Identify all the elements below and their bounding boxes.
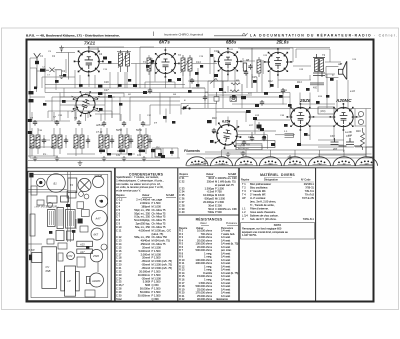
svg-text:B1: B1 [54,182,58,186]
filament dome 5 [284,157,306,166]
IF transformer T2 [181,55,193,76]
filament dome 4 [260,157,282,166]
svg-text:T 4: T 4 [242,193,246,197]
svg-text:6B8 s: 6B8 s [226,39,237,44]
svg-text:1.047 60751.: 1.047 60751. [242,233,257,237]
svg-text:C18: C18 [214,50,219,53]
extra mesh and annotations [152,48,330,158]
svg-text:M 1.000: M 1.000 [152,252,162,256]
svg-text:C25: C25 [252,76,257,79]
svg-text:P 1.500: P 1.500 [152,201,161,205]
svg-text:L 3,4: L 3,4 [242,214,248,218]
vertical divider 4 [315,168,317,302]
svg-text:C 39: C 39 [179,207,185,211]
svg-text:C 16: C 16 [116,249,122,253]
svg-text:P 1.500: P 1.500 [152,256,161,260]
svg-text:Mi 1.500: Mi 1.500 [215,197,226,201]
svg-text:762: 762 [317,163,322,166]
coil bank dark t marks [99,150,145,156]
condensateur column B rows [179,176,237,214]
svg-text:A20MC: A20MC [91,279,101,283]
svg-text:P 1.500: P 1.500 [215,186,224,190]
extra spokes on socket [72,96,100,112]
svg-text:C 11: C 11 [116,228,122,232]
svg-text:4 225V: 4 225V [193,163,201,166]
dome voltage texts [193,163,369,166]
input filter resistor [40,69,46,72]
svg-text:Ch.-Mica 75: Ch.-Mica 75 [152,222,167,226]
svg-text:FUSIB: FUSIB [95,174,103,178]
svg-text:10.000mm: 10.000mm [138,273,150,277]
svg-text:50fa, mi., 250: 50fa, mi., 250 [134,235,150,239]
svg-text:7/37-E-25t: 7/37-E-25t [302,196,314,200]
accumulator label box [236,144,262,150]
svg-text:C 18: C 18 [116,256,122,260]
svg-text:C 25: C 25 [116,280,122,284]
ground row under coils [33,156,38,161]
ground symbols row [203,160,208,165]
osc coil L1 [30,135,34,148]
svg-text:M 1.000: M 1.000 [152,204,162,208]
svg-text:R 22: R 22 [179,297,185,301]
svg-text:C 34: C 34 [179,190,185,194]
antenna terminal mark [29,173,33,178]
svg-text:C 4: C 4 [116,204,121,208]
chassis small labels [29,174,103,283]
svg-text:10.000pa: 10.000pa [203,193,214,197]
svg-text:20.000pa: 20.000pa [203,200,214,204]
svg-text:(tubul. 75): (tubul. 75) [152,232,164,236]
svg-text:40.000 ohms: 40.000 ohms [197,297,213,301]
svg-text:0.5a, mi., 250: 0.5a, mi., 250 [134,215,150,219]
PSU terminal strip details [236,122,294,148]
filament dome 7 [333,157,355,166]
AA7 circle [92,210,108,226]
IF transformer T1 [117,50,131,72]
NOTA box [241,223,315,239]
bleeder resistor [361,128,365,150]
osc coil L5 [119,135,123,148]
svg-text:C 6: C 6 [116,211,121,215]
svg-text:403: 403 [333,148,338,151]
svg-text:C 20: C 20 [116,263,122,267]
tiny reference labels [52,50,361,151]
svg-text:450mmf: 450mmf [141,242,151,246]
svg-text:P 1.500: P 1.500 [152,273,161,277]
filament bus [187,153,372,155]
resistor R9 zigzag [230,90,239,92]
tube V5 6J5 [210,118,244,152]
svg-text:2pm250 fqq.: 2pm250 fqq. [136,222,151,226]
svg-text:P 1.500: P 1.500 [152,290,161,294]
svg-text:C 3: C 3 [116,201,121,205]
svg-text:AA7: AA7 [95,217,101,221]
svg-text:-0.5mf: -0.5mf [207,190,215,194]
svg-text:C 200/25v en. C29: C 200/25v en. C29 [215,176,237,180]
6K7 circle [91,228,103,240]
svg-text:P 1.500: P 1.500 [152,287,161,291]
svg-text:-05mmf: -05mmf [141,259,150,263]
double rule above RESISTANCES [179,213,239,216]
svg-text:Accumurat: Accumurat [238,147,249,150]
svg-text:C27: C27 [104,89,109,92]
svg-text:50/50: 50/50 [116,130,122,132]
svg-text:T 2: T 2 [242,186,246,190]
svg-text:4 253: 4 253 [218,163,225,166]
junction box between rectifier tubes [318,107,334,114]
resistor R8 zigzag [231,83,240,85]
svg-text:C 5: C 5 [116,208,121,212]
svg-text:C 7: C 7 [116,215,121,219]
fuse circle [93,176,104,187]
svg-text:P 1.500: P 1.500 [152,280,161,284]
CONDENSATEURS rows [116,198,172,301]
svg-text:Ch.-Mica 75: Ch.-Mica 75 [152,225,167,229]
svg-text:P 750: P 750 [215,190,222,194]
svg-text:P 500: P 500 [215,210,222,214]
svg-text:Ch.-Mica 75: Ch.-Mica 75 [152,218,167,222]
svg-text:C 12: C 12 [116,235,122,239]
svg-text:739-7x1: 739-7x1 [305,189,315,193]
svg-text:Filaments: Filaments [184,149,200,153]
svg-text:C.: C. [332,74,335,77]
svg-text:C 15: C 15 [116,245,122,249]
T3 circle [96,195,108,207]
svg-text:C 24: C 24 [116,276,122,280]
svg-text:C 23: C 23 [116,273,122,277]
svg-text:20mmf: 20mmf [142,256,150,260]
detector coupling stack [243,57,263,77]
svg-text:M 654 (m/h. 75): M 654 (m/h. 75) [152,239,170,243]
tube V3 6B8 [214,48,242,76]
svg-text:C 38: C 38 [179,203,185,207]
A17 rect [77,249,93,254]
svg-text:TS: TS [322,54,325,57]
svg-text:C 26,7: C 26,7 [116,283,124,287]
CV gang block [42,247,57,289]
antenna [34,53,41,61]
svg-text:R20: R20 [356,130,361,133]
tube V7 ballast [330,103,358,131]
svg-text:et de service pour V.: et de service pour V. [116,189,141,193]
svg-text:2 × 0.460mf: 2 × 0.460mf [136,198,150,202]
svg-text:50a, mi., 250: 50a, mi., 250 [135,225,151,229]
CONDENSATEURS intro paragraph [116,175,164,192]
svg-text:Gous seuls chaussins.: Gous seuls chaussins. [250,210,276,214]
chassis mid parts [67,191,89,223]
svg-text:R12: R12 [268,80,273,83]
svg-text:Imprimerie CHIRIO, Argenteuil: Imprimerie CHIRIO, Argenteuil [164,32,203,36]
svg-text:6K7 s: 6K7 s [159,40,170,45]
svg-text:5mm100pfqq.: 5mm100pfqq. [134,218,150,222]
filament feed wires [222,145,345,157]
svg-text:E 200: E 200 [215,203,222,207]
svg-text:50mf: 50mf [208,207,214,211]
svg-text:var.,cage: var.,cage [152,198,163,202]
svg-text:5.000mmf: 5.000mmf [138,249,150,253]
svg-text:-20mmf: -20mmf [141,276,150,280]
HP circle with cross [78,178,91,191]
svg-text:30mf: 30mf [208,176,214,180]
svg-text:C 19: C 19 [116,259,122,263]
svg-text:M 1.500 (m/h. 75): M 1.500 (m/h. 75) [152,259,173,263]
component marks scattered [29,54,334,156]
wave switch cross [46,68,62,74]
svg-text:LA DOCUMENTATION DU RÉPARATEUR: LA DOCUMENTATION DU RÉPARATEUR-RADIO - C… [250,32,400,37]
svg-text:C 31: C 31 [179,176,185,180]
svg-text:M 1.500 (m/h. 75): M 1.500 (m/h. 75) [152,266,173,270]
svg-text:R16: R16 [212,117,217,120]
svg-text:C 32: C 32 [179,179,185,183]
svg-text:25Z6: 25Z6 [92,254,99,258]
svg-text:2.000mf: 2.000mf [141,252,151,256]
terminal circle [37,178,46,187]
svg-text:HP: HP [242,196,246,200]
svg-text:résistance: résistance [216,297,228,301]
long bus wires [45,49,335,104]
svg-text:Ch.-Mica 75: Ch.-Mica 75 [152,208,167,212]
svg-text:Total: Total [116,297,122,301]
transfo T2 box [68,178,77,193]
svg-text:HP: HP [339,62,343,66]
coil bank labels [30,117,144,157]
svg-text:C7N: C7N [67,254,72,258]
svg-text:250mf: 250mf [207,179,214,183]
svg-text:180pmf: 180pmf [141,204,150,208]
svg-text:Filtre d’antenne.: Filtre d’antenne. [250,207,269,211]
svg-text:Ch.-Mica 750: Ch.-Mica 750 [152,235,168,239]
header middle rule [214,35,246,37]
svg-text:a 10: a 10 [350,90,355,93]
tube V7 socket (octal base view) [68,86,103,121]
svg-text:303: 303 [268,163,273,166]
tube V4 25L6 [264,48,292,76]
svg-text:2° transfo MF.: 2° transfo MF. [250,193,266,197]
filter capacitor C31 [346,138,362,146]
dial lamps [358,111,363,116]
tube V6 25Z6 [287,103,315,131]
tube V2 6K7 [151,49,180,78]
svg-text:700/a: 700/a [208,210,215,214]
svg-text:6K7: 6K7 [94,233,99,237]
top grid bus [60,47,330,49]
svg-text:-05mmf: -05mmf [141,266,150,270]
svg-text:C26: C26 [104,81,109,84]
svg-text:7/05x-B-1: 7/05x-B-1 [303,217,315,221]
svg-text:CV: CV [46,265,50,269]
svg-text:79-x7x3: 79-x7x3 [305,193,315,197]
svg-text:T 1: T 1 [242,182,246,186]
svg-text:M 1/100: M 1/100 [215,193,225,197]
svg-text:C 10: C 10 [116,225,122,229]
svg-text:et paraél cart.75: et paraél cart.75 [215,183,234,187]
wire mesh upper [30,47,371,158]
svg-text:LP: LP [68,279,71,283]
osc coil L4 [99,135,103,148]
svg-text:MATÉRIEL DIVERS: MATÉRIEL DIVERS [260,172,295,177]
svg-text:T 3: T 3 [242,189,246,193]
svg-text:6SB: 6SB [46,269,51,273]
svg-text:C-1,2: C-1,2 [116,198,123,202]
small capacitor symbols [148,88,152,94]
svg-text:C 36: C 36 [179,197,185,201]
svg-text:7/39-31: 7/39-31 [305,186,314,190]
filament dome 8 [356,157,378,166]
svg-text:RÉSISTANCES: RÉSISTANCES [196,217,223,222]
header signature mark [243,33,248,36]
svg-text:M 1.500 (m/h. 75): M 1.500 (m/h. 75) [152,263,173,267]
svg-text:50/50: 50/50 [136,130,142,132]
svg-text:H.-P. exciteur.: H.-P. exciteur. [250,196,266,200]
antenna lead wire [37,64,40,88]
svg-text:-500pa/2: -500pa/2 [204,197,215,201]
svg-text:Sub. de R.T. (20 ohms.: Sub. de R.T. (20 ohms. [250,217,277,221]
svg-text:L.L.: L.L. [284,131,288,133]
svg-text:7X21: 7X21 [84,41,96,47]
svg-text:NOTA: NOTA [274,223,281,227]
svg-text:C 17: C 17 [116,252,122,256]
volume potentiometer R7 [208,79,240,84]
svg-text:50.000m: 50.000m [140,287,150,291]
svg-text:C 22: C 22 [116,269,122,273]
svg-text:50pf, mi., 250: 50pf, mi., 250 [134,208,150,212]
svg-text:(exc. 2mH, 2.00 ohms,: (exc. 2mH, 2.00 ohms, [250,200,276,204]
svg-text:M 1 W8 (bulb. 75): M 1 W8 (bulb. 75) [215,179,236,183]
mains entry box [32,252,42,262]
filament dome 6 [309,157,331,166]
svg-text:C32: C32 [116,155,121,157]
svg-text:T60 mf: T60 mf [238,146,245,148]
A20MC tube [90,273,104,287]
svg-text:1 électrolytiques. C céramique: 1 électrolytiques. C céramique. Al pria.… [116,179,164,183]
svg-text:C 9: C 9 [116,222,121,226]
middle rect cluster [48,210,56,227]
svg-text:C 33: C 33 [179,186,185,190]
C34 black cap [257,125,262,129]
tube V1 7X21 [74,46,104,76]
svg-text:C 30: C 30 [116,293,122,297]
svg-text:A33: A33 [79,243,85,247]
svg-text:20mmf: 20mmf [142,245,150,249]
vertical divider 3 [238,168,240,302]
svg-text:C 8: C 8 [116,218,121,222]
svg-text:5.000f: 5.000f [143,280,150,284]
interstage coil [147,58,151,71]
svg-text:C 21: C 21 [116,266,122,270]
svg-text:Ch.-Mica 75: Ch.-Mica 75 [152,215,167,219]
coil riser wires [28,112,160,161]
electrolytic C25 [214,97,219,102]
25Z6 circle [90,250,102,262]
mains plug box [366,147,373,157]
svg-text:Q 339: Q 339 [152,297,160,301]
svg-text:Inv.: Inv. [156,145,160,149]
svg-text:P 1.500: P 1.500 [152,269,161,273]
svg-text:C 29: C 29 [116,290,122,294]
chassis inner fold lines [28,172,108,298]
svg-text:Ch.-Mica 75: Ch.-Mica 75 [152,242,167,246]
ground after switch [59,74,64,79]
svg-text:« HP INTÉRIEUR »: « HP INTÉRIEUR » [34,203,59,208]
vertical divider 2 [177,168,179,302]
filament dome 2 [211,157,233,166]
svg-text:C 37: C 37 [179,200,185,204]
svg-text:Inv ..: Inv .. [43,154,48,156]
output transformer [310,49,325,108]
tube B1 top view [47,174,66,193]
svg-text:-05mmf: -05mmf [141,263,150,267]
svg-text:Tr., Transfo de sortie,: Tr., Transfo de sortie, [250,203,275,207]
svg-text:30.000mm: 30.000mm [138,293,150,297]
svg-text:Ch.-Mica 75: Ch.-Mica 75 [152,211,167,215]
additional wire mesh [30,47,366,155]
svg-text:R14: R14 [297,81,302,84]
RESISTANCES rows [179,229,238,301]
svg-text:50pf, mi., 250: 50pf, mi., 250 [134,211,150,215]
A33 rect [77,241,93,246]
svg-text:1.500pa: 1.500pa [205,186,215,190]
svg-text:4.000mmf: 4.000mmf [138,228,150,232]
svg-text:C33: C33 [137,155,142,157]
svg-text:30mf: 30mf [208,203,214,207]
svg-text:C 200/25v en. C38: C 200/25v en. C38 [215,207,237,211]
trimmer capacitors row [33,120,37,126]
svg-text:L 1: L 1 [242,207,246,211]
svg-text:C14: C14 [196,61,201,64]
svg-text:2.000cm: 2.000cm [140,201,150,205]
vertical divider 1 [114,168,116,302]
svg-text:Bloc préhensateur: Bloc préhensateur [250,182,271,186]
module hatch texture [50,209,74,226]
side padder caps [42,138,46,144]
electrolytic C26 [230,97,237,102]
chassis outline [28,171,111,300]
svg-text:C 40: C 40 [179,210,185,214]
svg-text:C7 40: C7 40 [96,131,103,134]
filter capacitor C30 [331,138,347,146]
svg-text:Q 150: Q 150 [152,283,160,287]
MATERIEL DIVERS rows [242,182,315,221]
LP transformer [65,266,76,296]
svg-text:25Z6: 25Z6 [299,98,311,103]
svg-text:(130): (130) [320,111,326,113]
svg-text:C 13: C 13 [116,239,122,243]
svg-text:29/139-1: 29/139-1 [304,182,315,186]
antenna series capacitor [35,61,39,64]
svg-text:M 1.000 pa., C/C: M 1.000 pa., C/C [152,228,172,232]
svg-text:C 35: C 35 [179,193,185,197]
svg-text:108: 108 [364,163,369,166]
svg-text:50.000m: 50.000m [140,290,150,294]
svg-text:V: V [242,217,244,221]
svg-text:M 1.500: M 1.500 [152,245,162,249]
svg-text:20.000mf: 20.000mf [139,269,150,273]
svg-text:6,5W: 6,5W [29,248,36,252]
osc coil L6 [138,135,142,148]
svg-text:P 1.500: P 1.500 [215,200,224,204]
svg-text:C 14: C 14 [116,242,122,246]
C7N circle [67,252,75,260]
Inv switch cluster [155,105,190,157]
svg-text:L 2: L 2 [242,210,246,214]
svg-text:C 28: C 28 [116,287,122,291]
svg-text:La 6B: La 6B [345,131,352,134]
more component marks [43,74,329,136]
svg-text:en volts, la tension prévue po: en volts, la tension prévue pour 7 et W, [116,185,163,189]
loudspeaker [326,61,347,79]
filament dome 1 [186,157,208,166]
svg-text:Bloc oscillateur.: Bloc oscillateur. [250,186,268,190]
